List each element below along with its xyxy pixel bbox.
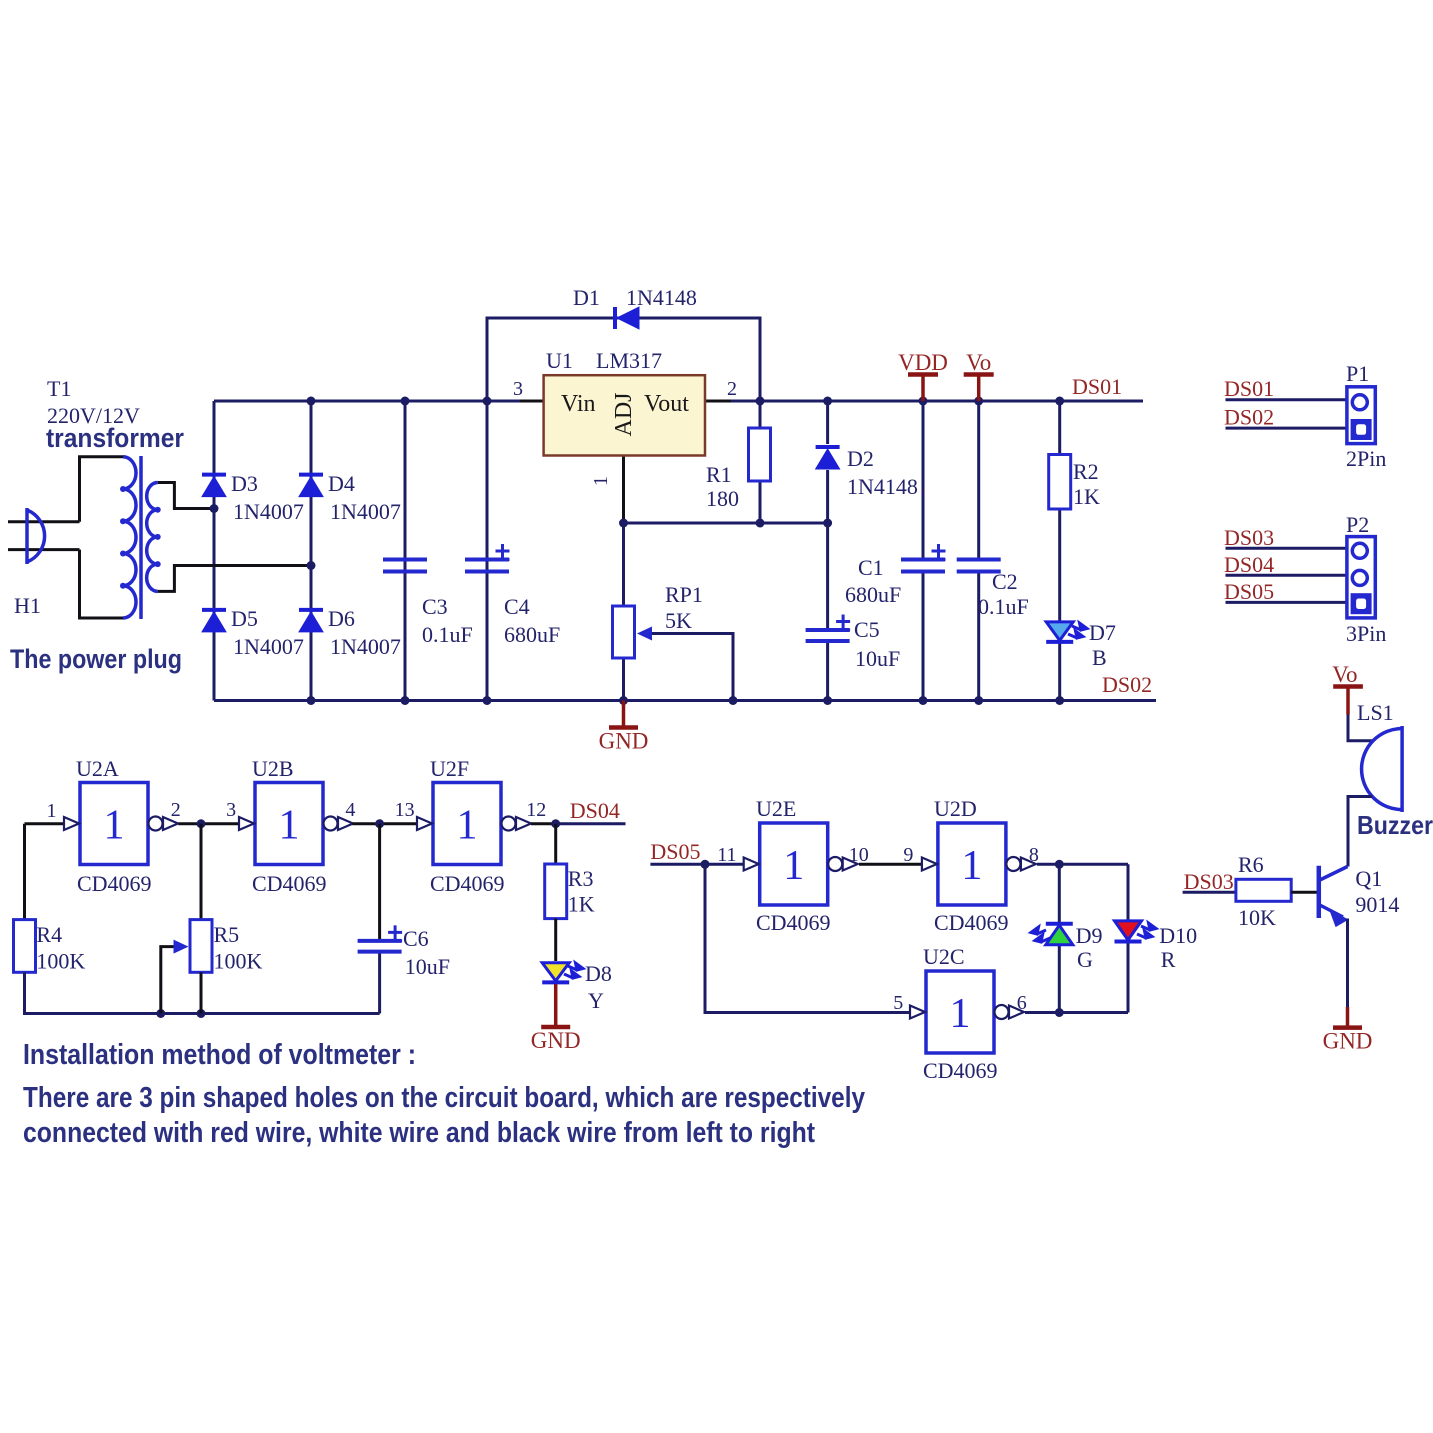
junction [729, 696, 738, 705]
svg-text:680uF: 680uF [504, 622, 560, 647]
wire: DS01 to P1 pin 1 [1226, 398, 1347, 401]
wire: RP1 column [622, 523, 625, 606]
wire: ADJ horizontal rail [624, 522, 828, 525]
svg-text:DS02: DS02 [1102, 672, 1152, 697]
potentiometer R5 100K [200, 824, 203, 920]
svg-text:1K: 1K [568, 892, 595, 917]
svg-text:R6: R6 [1238, 852, 1264, 877]
power VDD [921, 375, 925, 402]
inverter U2E CD4069 [760, 823, 828, 905]
junction [619, 696, 628, 705]
diode D4 1N4007 [299, 473, 323, 477]
ground [1346, 1007, 1350, 1027]
svg-text:Vo: Vo [966, 350, 991, 375]
svg-text:1: 1 [783, 843, 804, 889]
junction [1055, 860, 1064, 869]
junction [307, 696, 316, 705]
LED D10 red [1115, 921, 1142, 940]
svg-text:VDD: VDD [898, 350, 948, 375]
junction [919, 397, 928, 406]
capacitor C6 10uF [378, 824, 381, 941]
inverter U2F CD4069 [433, 783, 501, 865]
svg-text:C1: C1 [858, 555, 884, 580]
capacitor C5 10uF [806, 630, 850, 641]
wire: D10 column [1127, 864, 1130, 1012]
transformer T1 [80, 457, 124, 618]
wire: bottom ground bus [214, 699, 1156, 702]
svg-text:1K: 1K [1073, 484, 1100, 509]
svg-text:U2C: U2C [923, 944, 965, 969]
svg-text:CD4069: CD4069 [934, 910, 1009, 935]
wire: DS04 to P2 pin 2 [1226, 574, 1347, 577]
svg-text:U2E: U2E [756, 796, 796, 821]
svg-text:D10: D10 [1159, 923, 1197, 948]
inverter U2C CD4069 [926, 971, 994, 1053]
junction [156, 1009, 165, 1018]
diode D6 1N4007 [299, 608, 323, 612]
transistor Q1 9014 [1319, 866, 1348, 918]
svg-text:10uF: 10uF [855, 646, 900, 671]
svg-text:R3: R3 [568, 866, 594, 891]
junction [1055, 397, 1064, 406]
svg-text:R4: R4 [36, 922, 62, 947]
power plug H1 [8, 520, 80, 523]
resistor R3 1K [554, 824, 557, 864]
svg-text:9014: 9014 [1355, 892, 1399, 917]
svg-text:1: 1 [950, 991, 971, 1037]
svg-text:CD4069: CD4069 [430, 871, 505, 896]
power Vo [977, 375, 981, 402]
svg-text:6: 6 [1017, 992, 1027, 1014]
junction [1055, 1008, 1064, 1017]
svg-text:Installation method of voltmet: Installation method of voltmeter : [23, 1039, 416, 1071]
wire: U2E out to U2D in (pins 10-9) [859, 863, 921, 866]
capacitor C1 680uF [901, 560, 945, 572]
svg-text:1N4007: 1N4007 [233, 634, 304, 659]
svg-text:9: 9 [903, 844, 913, 866]
svg-text:3Pin: 3Pin [1346, 621, 1386, 646]
svg-text:There are 3 pin shaped holes o: There are 3 pin shaped holes on the circ… [23, 1082, 865, 1114]
svg-text:G: G [1077, 947, 1093, 972]
svg-text:DS01: DS01 [1072, 374, 1122, 399]
svg-text:H1: H1 [14, 593, 41, 618]
buzzer LS1 [1362, 726, 1403, 812]
svg-text:2Pin: 2Pin [1346, 446, 1386, 471]
inverter U2A CD4069 [80, 783, 148, 865]
capacitor C2 0.1uF [957, 560, 1001, 572]
wire: top bus from Vout pin 2 to DS01 [705, 400, 731, 403]
svg-text:11: 11 [717, 844, 736, 866]
svg-text:Vin: Vin [561, 391, 596, 417]
svg-text:C6: C6 [403, 926, 429, 951]
wire: D1 feedback loop [487, 318, 760, 401]
svg-text:10uF: 10uF [405, 954, 450, 979]
svg-text:CD4069: CD4069 [756, 910, 831, 935]
svg-text:U2A: U2A [76, 756, 119, 781]
svg-text:3: 3 [513, 378, 523, 400]
LED D9 green [1046, 925, 1073, 945]
svg-text:2: 2 [727, 378, 737, 400]
connector P1 2Pin [1347, 387, 1375, 444]
junction [974, 696, 983, 705]
svg-text:D8: D8 [585, 961, 612, 986]
svg-text:The power plug: The power plug [10, 644, 182, 674]
svg-text:GND: GND [599, 729, 649, 754]
wire: R5 wiper feedback [161, 947, 174, 1014]
wire: DS02 to P1 pin 2 [1226, 427, 1347, 430]
wire: R2/D7 column [1058, 401, 1061, 701]
inverter U2D CD4069 [938, 823, 1006, 905]
junction [197, 819, 206, 828]
wire: DS05 node down to U2C input [705, 864, 910, 1012]
svg-text:P1: P1 [1346, 361, 1369, 386]
svg-text:DS04: DS04 [570, 798, 620, 823]
wire: U1 ADJ pin down [622, 456, 625, 524]
wire: DS03 to R6 [1183, 891, 1236, 894]
wire: RP1 wiper to bottom bus [652, 634, 733, 701]
wire: DS05 into U2E pin 11 [650, 863, 745, 866]
svg-text:D2: D2 [847, 446, 874, 471]
svg-text:U2F: U2F [430, 756, 469, 781]
wire: Vo to buzzer top lead [1348, 715, 1372, 741]
svg-text:LS1: LS1 [1357, 700, 1394, 725]
svg-text:12: 12 [526, 799, 546, 821]
resistor R2 1K [1049, 455, 1071, 510]
resistor R1 180 [749, 428, 771, 481]
svg-text:D9: D9 [1076, 923, 1103, 948]
svg-text:180: 180 [706, 486, 739, 511]
svg-text:T1: T1 [47, 376, 71, 401]
svg-text:D5: D5 [231, 606, 258, 631]
svg-text:10: 10 [849, 844, 869, 866]
svg-text:1N4007: 1N4007 [330, 634, 401, 659]
connector P2 3Pin [1347, 537, 1375, 618]
svg-text:U2D: U2D [934, 796, 977, 821]
svg-text:DS04: DS04 [1224, 552, 1274, 577]
svg-text:LM317: LM317 [596, 348, 662, 373]
svg-text:100K: 100K [36, 949, 85, 974]
junction [974, 397, 983, 406]
wire: top bus from bridge to Vin pin 3 [214, 400, 520, 403]
wire: D9 column [1058, 864, 1061, 1012]
wire: U2A out to U2B in (pins 2-3) [178, 822, 239, 825]
svg-text:3: 3 [226, 799, 236, 821]
junction ADJ rail [619, 519, 628, 528]
wire: R4 to U2A input pin 1 [25, 822, 65, 825]
svg-text:transformer: transformer [46, 423, 184, 453]
junction [307, 397, 316, 406]
svg-text:connected with red wire, white: connected with red wire, white wire and … [23, 1117, 815, 1149]
op-amp U1 LM317 regulator [544, 375, 705, 455]
junction [551, 819, 560, 828]
svg-text:CD4069: CD4069 [252, 871, 327, 896]
svg-text:Vout: Vout [644, 391, 689, 417]
svg-text:R1: R1 [706, 462, 732, 487]
diode D2 1N4148 [816, 445, 840, 449]
svg-text:100K: 100K [214, 949, 263, 974]
svg-text:0.1uF: 0.1uF [978, 594, 1029, 619]
svg-text:D7: D7 [1089, 620, 1116, 645]
wire: D4/D6 bridge column [310, 401, 313, 701]
svg-text:1: 1 [104, 803, 125, 849]
svg-text:U2B: U2B [252, 756, 294, 781]
svg-text:DS05: DS05 [650, 839, 700, 864]
capacitor C3 0.1uF [383, 560, 427, 572]
svg-text:B: B [1092, 645, 1107, 670]
svg-text:C2: C2 [992, 569, 1018, 594]
capacitor C4 680uF [465, 560, 509, 572]
LED D7 blue [1046, 622, 1073, 641]
junction [756, 397, 765, 406]
svg-text:C5: C5 [854, 617, 880, 642]
wire: Q1 emitter down [1346, 919, 1349, 1008]
junction [483, 696, 492, 705]
svg-text:1: 1 [279, 803, 300, 849]
svg-text:D3: D3 [231, 471, 258, 496]
svg-text:DS05: DS05 [1224, 579, 1274, 604]
wire: D2/C5 column [826, 401, 829, 444]
junction [401, 397, 410, 406]
svg-text:1: 1 [47, 800, 57, 822]
svg-text:GND: GND [1323, 1029, 1373, 1054]
svg-text:R5: R5 [214, 922, 240, 947]
transformer core [139, 456, 143, 619]
wire: U2C output joining LED pair bottom [1025, 1011, 1128, 1014]
svg-text:1: 1 [961, 843, 982, 889]
svg-text:Buzzer: Buzzer [1357, 810, 1433, 840]
svg-text:CD4069: CD4069 [923, 1058, 998, 1083]
svg-text:CD4069: CD4069 [77, 871, 152, 896]
svg-text:ADJ: ADJ [611, 392, 637, 436]
svg-text:D1: D1 [573, 285, 600, 310]
svg-text:D4: D4 [328, 471, 355, 496]
svg-text:1: 1 [590, 476, 612, 486]
svg-text:8: 8 [1029, 844, 1039, 866]
wire: R1 column top [759, 401, 762, 428]
wire: secondary bottom tap to bridge [158, 566, 311, 592]
ground [622, 701, 626, 727]
svg-text:Q1: Q1 [1355, 866, 1382, 891]
wire: R6 to Q1 base [1291, 891, 1317, 894]
svg-text:2: 2 [171, 799, 181, 821]
wire: U2F output to DS04 [531, 822, 556, 825]
junction [823, 696, 832, 705]
resistor R6 10K [1236, 879, 1291, 901]
svg-text:0.1uF: 0.1uF [422, 622, 473, 647]
diode D5 1N4007 [202, 608, 226, 612]
wire: U2B out to U2F in (pins 4-13) [352, 822, 417, 825]
junction [701, 860, 710, 869]
junction [307, 561, 316, 570]
junction [1055, 696, 1064, 705]
svg-text:P2: P2 [1346, 512, 1369, 537]
junction [823, 397, 832, 406]
svg-text:R: R [1161, 947, 1176, 972]
potentiometer RP1 5K [613, 606, 635, 658]
wire: secondary top tap to bridge [158, 483, 214, 509]
svg-text:1N4148: 1N4148 [847, 474, 918, 499]
svg-text:1N4007: 1N4007 [330, 499, 401, 524]
svg-text:U1: U1 [546, 348, 573, 373]
svg-text:RP1: RP1 [665, 582, 703, 607]
wire: D3/D5 bridge column [213, 401, 216, 701]
svg-text:DS03: DS03 [1184, 869, 1234, 894]
LED D8 yellow [554, 919, 557, 961]
junction [375, 819, 384, 828]
svg-text:4: 4 [345, 799, 355, 821]
wire: C2 / Vo column [977, 401, 980, 701]
svg-text:DS01: DS01 [1224, 376, 1274, 401]
svg-text:680uF: 680uF [845, 582, 901, 607]
transformer secondary [147, 483, 158, 592]
wire: R4 bottom / oscillator ground rail [25, 972, 380, 1013]
ground [554, 984, 558, 1026]
wire: R1 bottom to ADJ rail [759, 481, 762, 523]
diode D3 1N4007 [202, 473, 226, 477]
svg-text:1N4148: 1N4148 [626, 285, 697, 310]
svg-text:C4: C4 [504, 594, 530, 619]
svg-text:C3: C3 [422, 594, 448, 619]
svg-text:Vo: Vo [1332, 662, 1357, 687]
diode D1 1N4148 [613, 307, 617, 329]
wire: C3 column [404, 401, 407, 701]
svg-text:D6: D6 [328, 606, 355, 631]
svg-text:DS02: DS02 [1224, 405, 1274, 430]
svg-text:R2: R2 [1073, 459, 1099, 484]
inverter U2B CD4069 [255, 783, 323, 865]
junction [401, 696, 410, 705]
wire: C4 / D1 column [486, 401, 489, 701]
svg-text:5K: 5K [665, 608, 692, 633]
svg-text:13: 13 [395, 799, 415, 821]
wire: buzzer bottom lead to Q1 collector [1348, 797, 1372, 867]
wire: C1 / VDD column [922, 401, 925, 701]
junction [210, 504, 219, 513]
wire: DS05 to P2 pin 3 [1226, 601, 1347, 604]
svg-text:10K: 10K [1238, 905, 1276, 930]
svg-text:Y: Y [588, 988, 604, 1013]
wire: U2D output to LED pair [1037, 863, 1128, 866]
resistor R4 100K [14, 920, 36, 973]
wire: DS03 to P2 pin 1 [1226, 547, 1347, 550]
svg-text:DS03: DS03 [1224, 525, 1274, 550]
svg-text:1: 1 [457, 803, 478, 849]
junction [483, 397, 492, 406]
svg-text:GND: GND [531, 1028, 581, 1053]
svg-text:5: 5 [893, 992, 903, 1014]
junction [919, 696, 928, 705]
svg-text:1N4007: 1N4007 [233, 499, 304, 524]
